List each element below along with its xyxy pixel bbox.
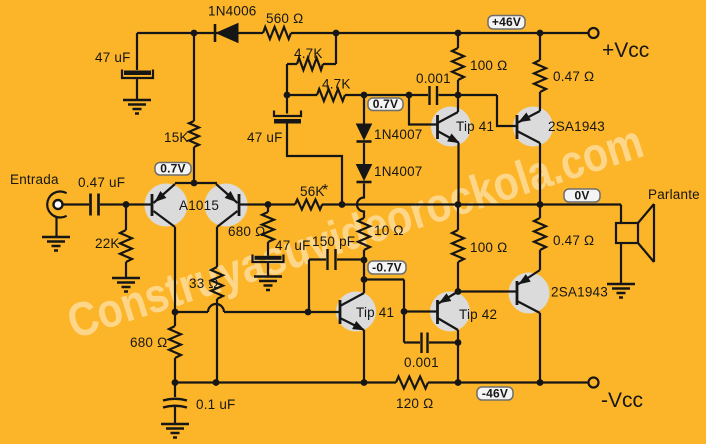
- wire lower 2SA1943 base lead: [458, 290, 517, 292]
- wire input cap to base of A1015: [100, 203, 152, 205]
- wire top +46V rail left segment: [137, 32, 263, 34]
- capacitor C5 47uF to ground: [255, 256, 282, 260]
- voltage label 0V: [564, 189, 600, 203]
- svg-text:Parlante: Parlante: [648, 187, 700, 202]
- diode D3 1N4007: [357, 165, 372, 181]
- junction Tip42 collector/bottom rail: [455, 379, 462, 386]
- wire 0.47 ohm lower column: [539, 205, 541, 271]
- junction emitter/0V rail: [455, 201, 462, 208]
- ground below speaker: [607, 284, 635, 298]
- input connector Entrada: [47, 192, 66, 218]
- wire drop 4.7K feedback from top rail: [335, 33, 337, 64]
- junction 0.47 ohm/top rail: [537, 30, 544, 37]
- wire 4.7K lower left lead: [287, 94, 317, 96]
- wire 0V output rail: [322, 203, 621, 205]
- capacitor C6 150pF: [328, 249, 336, 270]
- transistor Q6 Tip 42 body: [430, 292, 470, 332]
- resistor 560 ohm: [263, 27, 291, 39]
- wire 100 ohm lower column: [457, 205, 459, 292]
- svg-text:0.47 Ω: 0.47 Ω: [553, 69, 594, 84]
- wire emitter rail of A1015 pair: [175, 182, 217, 184]
- wire 47uF supply filter drop: [136, 33, 138, 70]
- svg-text:680 Ω: 680 Ω: [130, 335, 167, 350]
- resistor R2 15K: [189, 121, 199, 147]
- svg-text:1N4007: 1N4007: [374, 127, 423, 142]
- svg-text:150 pF: 150 pF: [312, 234, 355, 249]
- svg-text:0.1 uF: 0.1 uF: [196, 397, 235, 412]
- svg-text:A1015: A1015: [179, 198, 219, 213]
- wire connector to input cap: [62, 203, 89, 205]
- wire 680 ohm upper drop: [267, 205, 269, 213]
- wire speaker drop: [620, 205, 622, 285]
- wire diode junction drop to 15K: [193, 33, 195, 121]
- capacitor C4 0.47uF input: [91, 194, 99, 216]
- junction driver collector node: [361, 276, 368, 283]
- speaker Parlante: [616, 223, 638, 243]
- wire bottom -46V rail right segment: [428, 381, 588, 383]
- capacitor C1 47uF supply filter: [122, 70, 153, 79]
- resistor R15 120 ohm: [396, 377, 428, 389]
- wire C3 to 56K node: [287, 124, 342, 205]
- transistor Q6 Tip 42 symbol: [436, 300, 439, 324]
- wire bottom -46V rail left segment: [175, 381, 396, 383]
- voltage label 0.7V middle: [368, 97, 403, 111]
- wire 2SA1943 upper collector to 0V rail: [539, 143, 541, 205]
- svg-text:+Vcc: +Vcc: [602, 39, 649, 62]
- ground below connector: [42, 237, 70, 251]
- wire lower 2SA1943 collector to bottom rail: [539, 313, 541, 383]
- diode D1 1N4006: [214, 24, 217, 42]
- junction 0.001/Tip42 collector: [455, 339, 462, 346]
- svg-text:Entrada: Entrada: [10, 172, 59, 187]
- svg-text:56K: 56K: [300, 184, 325, 199]
- svg-text:Tip 41: Tip 41: [456, 119, 494, 134]
- svg-text:Tip 42: Tip 42: [459, 307, 497, 322]
- wire driver base line with hop: [175, 304, 340, 312]
- svg-text:4.7K: 4.7K: [322, 77, 351, 92]
- capacitor C8 0.1uF: [163, 399, 187, 408]
- svg-text:47 uF: 47 uF: [247, 130, 283, 145]
- voltage label -46V: [477, 387, 513, 401]
- capacitor C2 0.001 upper: [430, 86, 438, 105]
- junction collector/0V rail: [537, 201, 544, 208]
- junction 0.001/Tip41 base node: [406, 92, 413, 99]
- svg-text:100 Ω: 100 Ω: [470, 240, 507, 255]
- svg-text:120 Ω: 120 Ω: [396, 396, 433, 411]
- wire 15K to emitter rail: [193, 147, 195, 183]
- wire Tip42 collector to bottom rail: [457, 330, 459, 383]
- junction Tip42 emitter node: [455, 288, 462, 295]
- voltage label 0.7V left: [155, 162, 191, 176]
- svg-text:0.47 uF: 0.47 uF: [78, 175, 125, 190]
- resistor R7 56K: [295, 200, 322, 210]
- junction diode top node: [361, 92, 368, 99]
- resistor R14 0.47 ohm upper: [534, 60, 546, 92]
- junction 150pF/10 ohm: [361, 257, 368, 264]
- junction 680/0.1uF bottom rail: [172, 379, 179, 386]
- resistor R6 22K: [120, 230, 132, 262]
- resistor R12 0.47 ohm lower: [534, 218, 546, 250]
- svg-text:Tip 41: Tip 41: [356, 305, 394, 320]
- wire lower Tip41 emitter to bottom rail: [363, 330, 365, 383]
- svg-text:1N4007: 1N4007: [374, 164, 423, 179]
- resistor R4 4.7K lower: [317, 89, 345, 101]
- ground below C1: [123, 100, 151, 114]
- ground below 0.1uF: [161, 424, 189, 438]
- transistor Q2 A1015 right body: [205, 184, 248, 227]
- transistor Q7 2SA1943 lower body: [509, 273, 550, 314]
- junction 56K/feedback: [339, 201, 346, 208]
- wire left collector drop: [174, 227, 176, 326]
- junction 2SA1943 collector/bottom rail: [537, 379, 544, 386]
- wire node 0.7V horizontal to 0.001 cap: [345, 94, 428, 96]
- svg-text:-Vcc: -Vcc: [601, 389, 643, 412]
- transistor Q7 2SA1943 lower symbol: [516, 281, 519, 305]
- junction 100 ohm top node: [455, 92, 462, 99]
- wire Tip41 upper emitter to 0V rail: [457, 143, 459, 205]
- wire driver collector node to Tip42 base: [364, 280, 438, 343]
- svg-text:0.7V: 0.7V: [373, 97, 399, 111]
- capacitor C3 47uF feedback: [286, 95, 288, 114]
- svg-text:*: *: [322, 182, 328, 199]
- wire C1 to ground: [136, 78, 138, 100]
- transistor Q5 Tip 41 lower symbol: [339, 300, 342, 324]
- junction 4.7K mid node: [284, 92, 291, 99]
- svg-text:0.001: 0.001: [416, 71, 451, 86]
- svg-text:4.7K: 4.7K: [294, 46, 323, 61]
- svg-text:1N4006: 1N4006: [208, 4, 257, 19]
- transistor Q3 Tip 41 upper symbol: [436, 115, 439, 139]
- transistor Q4 2SA1943 upper symbol: [516, 115, 519, 139]
- resistor R5 10 ohm: [358, 218, 370, 250]
- wire 22K to ground: [125, 262, 127, 278]
- svg-text:-46V: -46V: [482, 387, 508, 401]
- svg-text:22K: 22K: [95, 236, 120, 251]
- junction 100 ohm/top rail: [455, 30, 462, 37]
- svg-text:2SA1943: 2SA1943: [551, 285, 608, 300]
- junction emitter rail: [191, 180, 198, 187]
- svg-text:560 Ω: 560 Ω: [266, 11, 303, 26]
- wire 150pF right lead: [337, 258, 364, 260]
- wire right collector drop: [216, 227, 218, 267]
- svg-text:47 uF: 47 uF: [275, 238, 311, 253]
- resistor R11 100 ohm lower: [452, 230, 464, 262]
- wire connector ground lead: [55, 216, 57, 237]
- resistor R3 4.7K upper: [297, 58, 323, 70]
- wire 0.1uF to ground: [174, 407, 176, 425]
- wire between diodes: [363, 143, 365, 165]
- junction 680 ohm/base: [265, 201, 272, 208]
- resistor R9 33 ohm: [211, 267, 223, 299]
- junction 22K/input: [123, 201, 130, 208]
- svg-text:0V: 0V: [574, 189, 589, 203]
- wire top +46V rail right segment: [291, 32, 588, 34]
- wire 0.001 cap to 100 ohm column: [439, 94, 498, 96]
- wire 33 ohm to bottom rail: [216, 299, 218, 383]
- svg-text:10 Ω: 10 Ω: [374, 223, 404, 238]
- transistor Q3 Tip 41 upper body: [431, 107, 471, 147]
- resistor R13 100 ohm upper: [452, 48, 464, 80]
- wire 680 ohm to bottom rail and 0.1uF: [174, 358, 176, 397]
- voltage label -0.7V: [368, 261, 406, 275]
- junction 4.7K drop/top rail: [333, 30, 340, 37]
- resistor R10 680 ohm upper: [262, 212, 274, 242]
- svg-text:+46V: +46V: [492, 15, 521, 29]
- ground below C5: [254, 277, 282, 291]
- transistor Q1 A1015 left body: [145, 184, 188, 227]
- wire 150pF left lead: [309, 260, 326, 313]
- svg-text:0.7V: 0.7V: [160, 162, 186, 176]
- voltage label +46V: [488, 15, 525, 29]
- wire C5 to ground: [267, 262, 269, 277]
- capacitor C7 0.001 lower: [404, 341, 458, 343]
- transistor Q5 Tip 41 lower body: [336, 292, 376, 332]
- svg-text:33 Ω: 33 Ω: [189, 276, 219, 291]
- svg-text:15K: 15K: [164, 130, 189, 145]
- wire A1015 right base to 56K: [239, 203, 295, 205]
- wire Tip41 upper base lead: [409, 95, 438, 125]
- transistor Q4 2SA1943 upper body: [513, 107, 553, 147]
- diode D2 1N4007: [363, 95, 365, 124]
- junction 33 ohm/bottom rail: [213, 379, 220, 386]
- terminal -Vcc: [589, 378, 599, 388]
- wire 0.47 ohm upper column: [539, 33, 541, 111]
- wire 4.7K upper leads: [287, 64, 336, 95]
- junction Tip42 base node: [401, 308, 408, 315]
- resistor R8 680 ohm lower: [169, 326, 181, 358]
- wire 10 ohm to driver collector node: [363, 250, 365, 293]
- wire 2SA1943 upper base lead: [497, 95, 517, 126]
- wire 100 ohm upper column: [457, 33, 459, 112]
- svg-text:0.001: 0.001: [404, 355, 439, 370]
- wire diode chain with hop over 0V rail: [357, 184, 364, 219]
- junction diode/top rail: [191, 30, 198, 37]
- junction 680 ohm/base line: [172, 309, 179, 316]
- wire 22K drop: [125, 205, 127, 231]
- terminal +Vcc: [589, 28, 599, 38]
- svg-text:-0.7V: -0.7V: [372, 261, 402, 275]
- svg-text:100 Ω: 100 Ω: [470, 58, 507, 73]
- transistor Q1 A1015 left symbol: [151, 194, 154, 216]
- svg-text:680 Ω: 680 Ω: [228, 224, 265, 239]
- wire 680 ohm to 47uF: [267, 242, 269, 256]
- junction Tip41 emitter/bottom rail: [361, 379, 368, 386]
- svg-text:47 uF: 47 uF: [95, 50, 131, 65]
- transistor Q2 A1015 right symbol: [238, 194, 241, 216]
- svg-text:2SA1943: 2SA1943: [548, 119, 605, 134]
- ground below 22K: [112, 278, 140, 292]
- svg-text:0.47 Ω: 0.47 Ω: [553, 233, 594, 248]
- junction 150pF drop/base line: [305, 309, 312, 316]
